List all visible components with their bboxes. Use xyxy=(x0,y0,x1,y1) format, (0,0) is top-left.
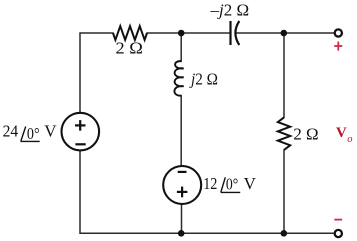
svg-text:2 Ω: 2 Ω xyxy=(293,125,318,144)
svg-text:–j2 Ω: –j2 Ω xyxy=(210,0,250,19)
svg-text:V: V xyxy=(244,174,257,193)
svg-text:o: o xyxy=(347,134,352,145)
svg-text:2 Ω: 2 Ω xyxy=(116,39,143,58)
svg-text:12: 12 xyxy=(203,174,217,193)
svg-text:V: V xyxy=(336,125,347,141)
svg-text:j2 Ω: j2 Ω xyxy=(189,70,218,89)
svg-text:0°: 0° xyxy=(27,124,40,143)
svg-text:24: 24 xyxy=(3,121,19,140)
svg-text:V: V xyxy=(44,121,57,140)
svg-text:0°: 0° xyxy=(226,174,238,193)
